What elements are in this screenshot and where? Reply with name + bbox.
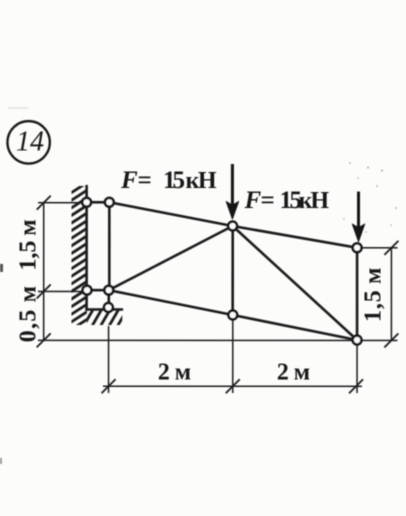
svg-text:14: 14: [16, 126, 44, 157]
svg-text:кН: кН: [186, 168, 217, 194]
svg-text:1,5 м: 1,5 м: [15, 219, 41, 270]
svg-text:2 м: 2 м: [158, 360, 191, 386]
svg-text:F: F: [120, 167, 138, 194]
svg-text:=: =: [138, 167, 152, 194]
svg-text:0,5 м: 0,5 м: [15, 285, 41, 343]
svg-text:15: 15: [163, 167, 185, 194]
svg-text:=: =: [261, 187, 275, 214]
svg-text:1,5 м: 1,5 м: [360, 267, 386, 322]
svg-text:F: F: [244, 187, 262, 214]
svg-text:2 м: 2 м: [277, 360, 310, 386]
svg-text:кН: кН: [299, 188, 330, 214]
